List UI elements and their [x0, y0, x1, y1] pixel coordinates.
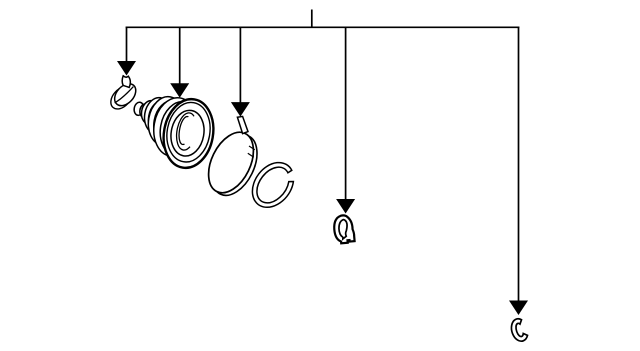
part: small crimp clamp — [333, 215, 355, 244]
part: CV joint boot — [133, 94, 219, 172]
callout arrow 4 (to small crimp clamp) — [345, 27, 347, 201]
callout tree: horizontal bar — [126, 26, 520, 28]
callout arrow 1 (to small band clamp) — [126, 27, 128, 63]
part: retaining clip — [511, 319, 527, 341]
part: large band clamp — [199, 116, 266, 202]
callout tree: top stub — [311, 10, 313, 28]
callout arrow 3 (to large band clamp) — [239, 27, 241, 104]
callout arrow 2 (to CV boot) — [179, 27, 181, 85]
part: snap ring — [252, 163, 293, 208]
callout arrow 5 (to retaining clip) — [518, 27, 520, 302]
part: small band clamp — [107, 76, 140, 113]
